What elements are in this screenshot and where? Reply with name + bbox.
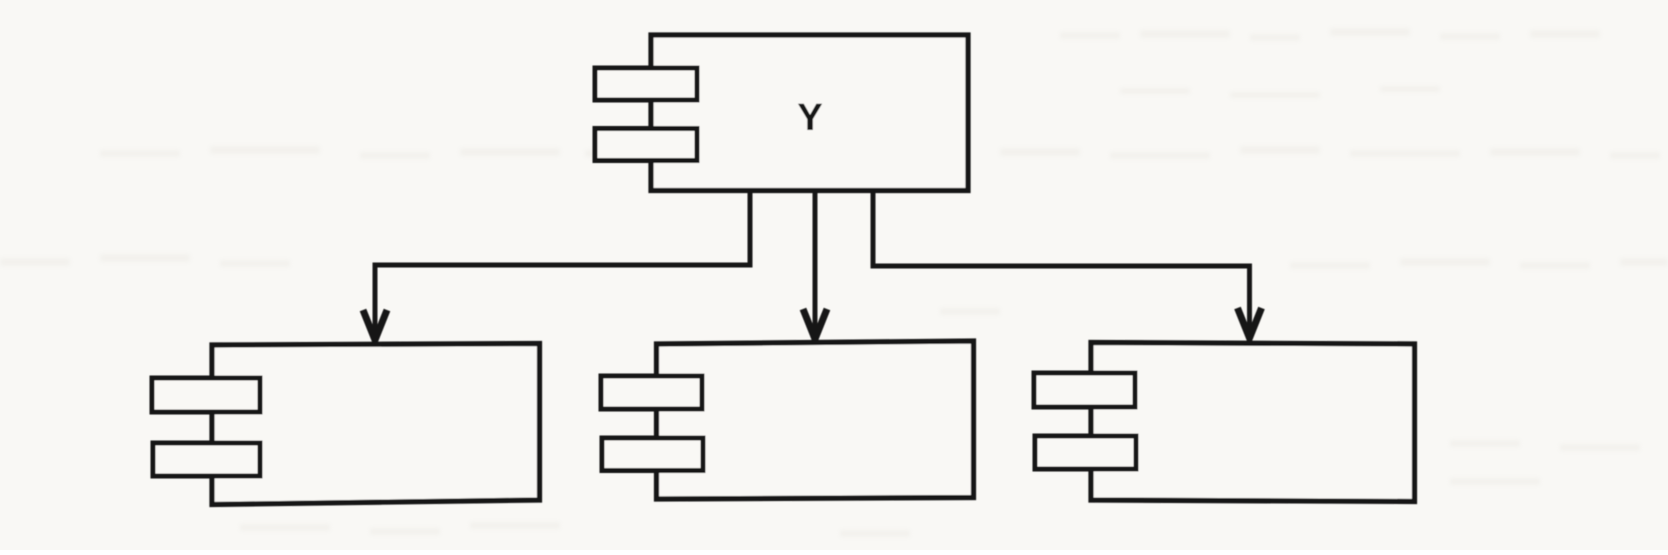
svg-text:Y: Y: [797, 97, 822, 139]
middle component box: [657, 341, 974, 499]
component Y tab 2: [595, 129, 697, 161]
wire Y to right component: [873, 191, 1250, 330]
component Y box: [651, 35, 968, 191]
middle component tab 2: [602, 438, 703, 471]
arrowhead into left component: [363, 310, 387, 341]
left component tab 1: [152, 378, 260, 412]
arrowhead into right component: [1238, 308, 1262, 339]
right component box: [1091, 343, 1415, 502]
component Y tab 1: [595, 68, 697, 100]
right component tab 1: [1034, 373, 1135, 407]
left component box: [212, 344, 540, 505]
middle component tab 1: [601, 376, 702, 409]
left component tab 2: [153, 443, 260, 476]
wire Y to left component: [375, 191, 750, 332]
arrowhead into middle component: [803, 309, 827, 341]
right component tab 2: [1035, 436, 1136, 469]
wire Y to middle component: [813, 191, 818, 332]
